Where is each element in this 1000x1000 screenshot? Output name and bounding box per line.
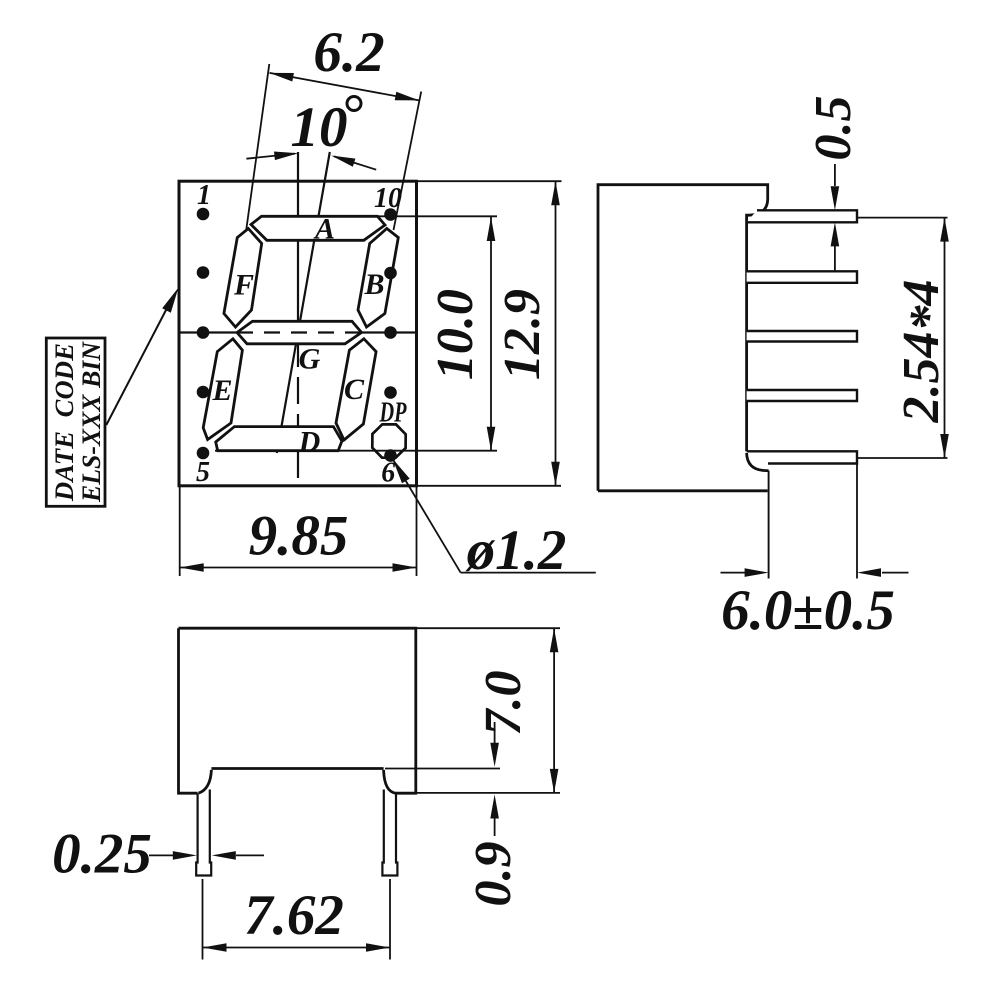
label box ELS bbox=[46, 338, 105, 506]
side view body bottom edge bbox=[598, 489, 768, 492]
dim 6.0 extension right bbox=[856, 464, 858, 579]
dim 2.54x4 extension bottom bbox=[858, 457, 948, 459]
side pin 4 bbox=[747, 390, 857, 401]
svg-text:0.9: 0.9 bbox=[465, 842, 522, 907]
dim 7.62 extension right bbox=[389, 879, 391, 960]
svg-text:C: C bbox=[344, 373, 365, 406]
dim 9.85 extension left bbox=[179, 487, 181, 576]
horizontal center line bbox=[179, 331, 417, 333]
svg-text:7.0: 7.0 bbox=[475, 671, 532, 736]
dim 6.0 extension left bbox=[768, 471, 770, 579]
segment C bbox=[336, 339, 376, 440]
segment D bbox=[216, 427, 342, 451]
side view body bottom-right fillet bbox=[747, 453, 769, 471]
left pin dot 4 bbox=[197, 386, 210, 399]
svg-text:0.25: 0.25 bbox=[52, 823, 152, 886]
svg-text:1: 1 bbox=[197, 180, 211, 211]
segment F bbox=[224, 229, 262, 328]
dim 2.54x4 dimension line bbox=[944, 218, 946, 458]
extension line 10.0 bottom bbox=[215, 450, 497, 452]
vertical center line upper bbox=[297, 152, 299, 338]
dim 7.62 dimension line bbox=[203, 947, 391, 949]
right pin dot 8 bbox=[384, 326, 397, 339]
dim 9.85 dimension line bbox=[180, 567, 417, 569]
segment B bbox=[358, 229, 398, 328]
svg-text:6.0±0.5: 6.0±0.5 bbox=[721, 579, 895, 642]
svg-text:F: F bbox=[233, 269, 254, 302]
svg-text:2.54*4: 2.54*4 bbox=[893, 280, 957, 424]
svg-text:9.85: 9.85 bbox=[249, 505, 349, 568]
angle 10deg right arrow bbox=[334, 156, 376, 169]
dim 6.2 dimension line bbox=[270, 73, 420, 101]
svg-text:ø1.2: ø1.2 bbox=[465, 519, 567, 582]
svg-text:DP: DP bbox=[379, 398, 407, 429]
bottom right pin bbox=[382, 790, 397, 876]
dim 0.9 arrows bbox=[494, 722, 496, 744]
side pin 1 bbox=[747, 210, 857, 222]
svg-text:7.62: 7.62 bbox=[244, 884, 344, 947]
dim 6.2 extension line left bbox=[246, 64, 269, 232]
bottom view body outline bbox=[179, 628, 416, 793]
dim 12.9 extension bottom bbox=[418, 485, 561, 487]
label leader arrow bbox=[106, 299, 172, 426]
dim 7.62 extension left bbox=[202, 879, 204, 960]
dim 12.9 extension top bbox=[418, 180, 562, 182]
svg-text:G: G bbox=[299, 343, 321, 376]
dim 7.0 extension top bbox=[417, 627, 560, 629]
right pin dot 7 bbox=[384, 386, 397, 399]
side pin 2 bbox=[747, 271, 857, 283]
dim 9.85 extension right bbox=[416, 487, 418, 576]
svg-text:5: 5 bbox=[196, 457, 210, 488]
left pin dot 3 bbox=[197, 326, 210, 339]
bottom view left fillet bbox=[199, 770, 212, 793]
segment E bbox=[203, 339, 242, 440]
side pin 3 bbox=[747, 331, 857, 342]
left pin dot 5 bbox=[197, 447, 210, 460]
dim 0.9 extension bbox=[385, 768, 500, 770]
segment A bbox=[251, 216, 385, 240]
extension line 10.0 top bbox=[376, 215, 497, 217]
svg-text:0.5: 0.5 bbox=[805, 96, 862, 161]
vertical center line lower dashed bbox=[297, 340, 299, 486]
svg-text:E: E bbox=[211, 374, 232, 407]
svg-text:DATE CODE: DATE CODE bbox=[49, 343, 79, 502]
svg-text:A: A bbox=[313, 213, 335, 246]
front view package outline bbox=[179, 181, 417, 486]
bottom view left edge+foot bbox=[179, 628, 198, 793]
dim 7.0 extension bottom bbox=[397, 792, 560, 794]
dim 0.5 arrows bbox=[834, 164, 836, 186]
dim 6.2 extension line right bbox=[394, 92, 422, 231]
left pin dot 1 bbox=[197, 208, 210, 221]
segment G bbox=[237, 321, 362, 344]
pin 6 dot on DP bbox=[384, 449, 397, 462]
bottom left pin bbox=[196, 790, 211, 876]
svg-text:10: 10 bbox=[291, 96, 348, 159]
svg-text:6.2: 6.2 bbox=[313, 21, 384, 84]
svg-text:ELS-XXX BIN: ELS-XXX BIN bbox=[76, 341, 106, 503]
side view body outline bbox=[598, 185, 768, 491]
svg-text:D: D bbox=[298, 426, 321, 459]
svg-text:12.9: 12.9 bbox=[494, 289, 551, 380]
svg-text:6: 6 bbox=[381, 458, 395, 489]
dim 2.54x4 extension top bbox=[858, 217, 948, 219]
dim 7.0 dimension line bbox=[553, 628, 555, 793]
angle 10deg left arrow bbox=[246, 154, 295, 159]
digit axis line 10 deg bbox=[277, 152, 330, 453]
right pin dot 10 bbox=[384, 208, 397, 221]
bottom view recessed edge bbox=[211, 767, 383, 770]
left pin dot 2 bbox=[197, 266, 210, 279]
right pin dot 9 bbox=[384, 267, 397, 280]
side pin 5 strip bbox=[747, 451, 857, 463]
decimal point DP octagon bbox=[372, 424, 405, 457]
svg-text:B: B bbox=[363, 268, 384, 301]
dim 10.0 dimension line bbox=[490, 217, 492, 451]
dim 6.0 arrows bbox=[721, 572, 746, 574]
callout leader dia1.2 bbox=[392, 457, 461, 573]
dim 12.9 dimension line bbox=[555, 181, 557, 486]
dim 0.25 arrows bbox=[149, 854, 173, 856]
svg-text:10.0: 10.0 bbox=[427, 289, 484, 380]
dashed line through segment G bbox=[237, 331, 362, 333]
